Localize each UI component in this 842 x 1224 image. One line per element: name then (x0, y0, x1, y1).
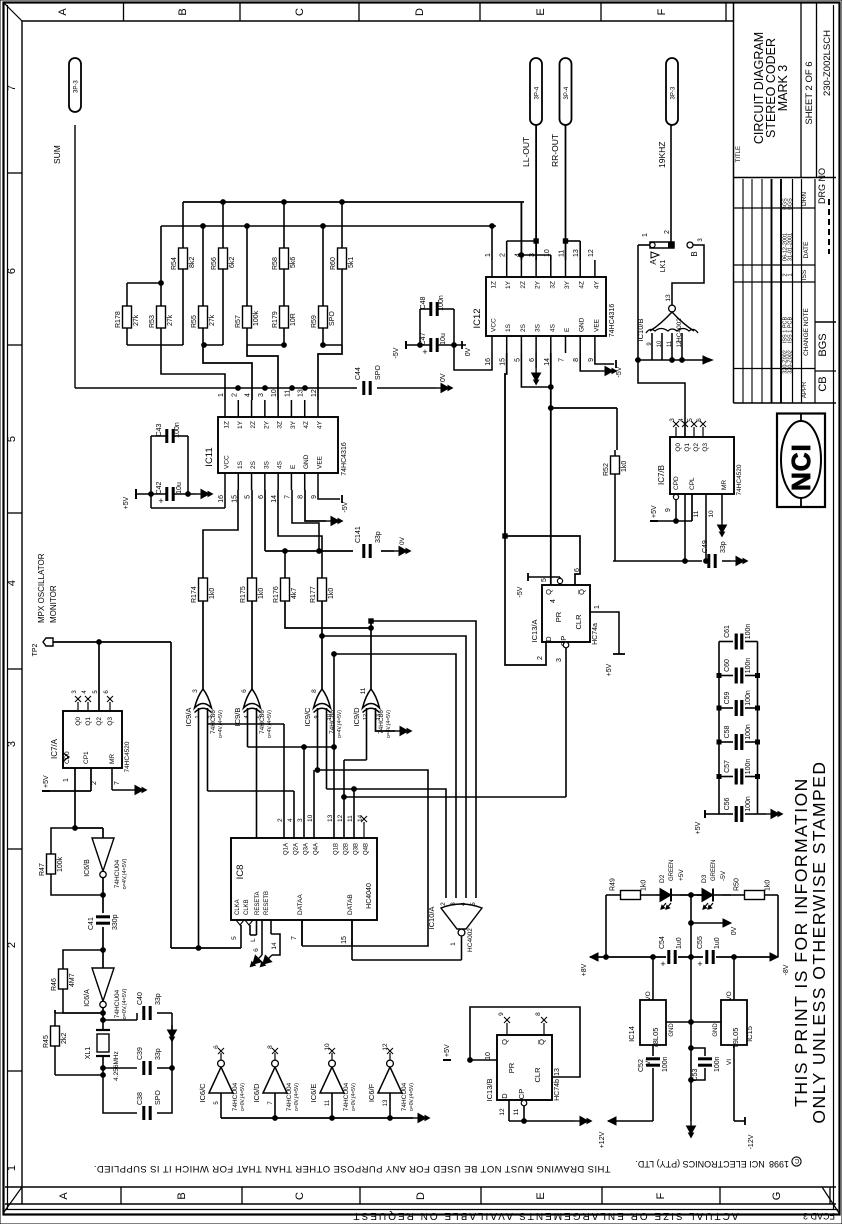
svg-text:33p: 33p (720, 541, 727, 553)
svg-text:MARK 3: MARK 3 (776, 65, 790, 112)
svg-text:27k: 27k (167, 314, 174, 326)
svg-text:C47: C47 (420, 332, 427, 345)
svg-text:74HCU04: 74HCU04 (114, 989, 121, 1018)
svg-text:R58: R58 (272, 257, 279, 270)
svg-text:Q2: Q2 (96, 717, 103, 726)
svg-text:5: 5 (231, 936, 238, 940)
svg-text:IC9/A: IC9/A (184, 708, 193, 727)
svg-text:C141: C141 (355, 526, 362, 543)
svg-text:11: 11 (667, 340, 673, 347)
svg-text:GND: GND (713, 1023, 719, 1037)
svg-text:6: 6 (213, 1045, 220, 1049)
svg-text:6: 6 (574, 568, 581, 572)
svg-text:R57: R57 (235, 315, 242, 328)
svg-text:F: F (655, 1192, 667, 1199)
svg-text:1S: 1S (237, 460, 244, 469)
svg-text:1k0: 1k0 (621, 461, 628, 472)
svg-text:Q3B: Q3B (354, 843, 360, 855)
svg-text:VEE: VEE (317, 455, 324, 469)
svg-text:Q̅: Q̅ (537, 1039, 546, 1045)
svg-text:IC9/C: IC9/C (303, 707, 312, 727)
svg-text:3: 3 (297, 818, 304, 822)
svg-text:11: 11 (693, 510, 700, 517)
svg-text:74HC4316: 74HC4316 (341, 442, 348, 476)
svg-text:+12V: +12V (599, 1131, 606, 1148)
svg-text:10: 10 (544, 249, 551, 257)
svg-text:R50: R50 (734, 878, 741, 891)
svg-text:R177: R177 (310, 586, 317, 603)
svg-text:G: G (771, 1192, 783, 1201)
svg-text:9: 9 (311, 495, 318, 499)
svg-text:C: C (294, 1192, 306, 1200)
svg-text:o=0V,(4=5V): o=0V,(4=5V) (294, 1083, 300, 1111)
svg-text:-5V: -5V (342, 501, 349, 512)
svg-text:ACTUAL SIZE OR ENLARGEMENTS AV: ACTUAL SIZE OR ENLARGEMENTS AVAILABLE ON… (352, 1210, 739, 1221)
svg-text:74HCU04: 74HCU04 (114, 859, 121, 888)
svg-text:1Z: 1Z (224, 421, 231, 429)
svg-text:3: 3 (6, 741, 18, 747)
svg-text:33p: 33p (155, 993, 162, 1005)
svg-text:230-Z002LSCH: 230-Z002LSCH (822, 30, 833, 96)
svg-text:D: D (500, 1093, 509, 1099)
svg-text:R56: R56 (211, 257, 218, 270)
svg-text:0V: 0V (399, 536, 406, 545)
svg-text:XL1: XL1 (85, 1047, 92, 1060)
svg-text:11: 11 (513, 1108, 520, 1115)
svg-text:+: + (422, 347, 427, 357)
svg-text:C38: C38 (137, 1092, 144, 1105)
svg-text:ISS: ISS (801, 269, 808, 280)
svg-text:SUM: SUM (52, 145, 62, 164)
svg-text:Q1B: Q1B (334, 843, 340, 855)
svg-text:9: 9 (498, 1012, 505, 1016)
svg-text:IC6/A: IC6/A (84, 989, 91, 1007)
svg-text:74HC86: 74HC86 (329, 710, 336, 734)
svg-text:3P-4: 3P-4 (535, 86, 541, 99)
svg-text:1: 1 (6, 1165, 18, 1171)
svg-text:2Z: 2Z (520, 281, 527, 289)
svg-text:IC10/A: IC10/A (427, 907, 436, 930)
svg-text:4Z: 4Z (303, 421, 310, 429)
svg-text:R46: R46 (51, 978, 58, 991)
svg-text:13: 13 (298, 389, 305, 397)
svg-text:R47: R47 (39, 863, 46, 876)
svg-text:C57: C57 (724, 760, 731, 773)
svg-text:11: 11 (284, 390, 291, 397)
svg-text:GREEN: GREEN (711, 860, 717, 881)
svg-text:31-01-2001: 31-01-2001 (788, 233, 794, 261)
svg-text:8k2: 8k2 (189, 257, 196, 268)
svg-text:3Z: 3Z (277, 421, 284, 429)
svg-text:1: 1 (63, 778, 70, 782)
svg-text:15: 15 (341, 936, 348, 944)
svg-text:10: 10 (324, 1043, 331, 1051)
svg-text:-5V: -5V (393, 347, 400, 358)
svg-text:11: 11 (360, 687, 367, 694)
svg-text:330p: 330p (112, 914, 119, 930)
svg-text:NCI: NCI (786, 443, 816, 491)
svg-text:IC7/B: IC7/B (657, 465, 666, 485)
svg-text:3P-3: 3P-3 (671, 86, 677, 99)
svg-text:79L05: 79L05 (731, 1028, 740, 1049)
svg-text:Q: Q (544, 589, 553, 595)
svg-text:GREEN: GREEN (669, 860, 675, 881)
svg-text:10u: 10u (440, 333, 447, 345)
svg-text:2: 2 (91, 781, 98, 785)
svg-text:-5V: -5V (616, 366, 623, 377)
svg-text:R55: R55 (191, 315, 198, 328)
svg-text:10: 10 (485, 1052, 492, 1060)
svg-text:-5V: -5V (720, 870, 727, 881)
svg-text:2: 2 (231, 393, 238, 397)
svg-text:D2: D2 (659, 874, 666, 883)
svg-text:100k: 100k (57, 856, 64, 872)
svg-text:IC13/B: IC13/B (485, 1079, 494, 1102)
svg-text:10: 10 (708, 510, 715, 518)
svg-text:6: 6 (529, 358, 536, 362)
svg-text:8: 8 (573, 358, 580, 362)
svg-text:C44: C44 (355, 367, 362, 380)
svg-text:4Y: 4Y (317, 420, 324, 429)
svg-text:12: 12 (677, 340, 683, 347)
svg-text:14: 14 (271, 942, 278, 950)
svg-text:1u0: 1u0 (714, 937, 721, 949)
svg-text:B: B (690, 251, 699, 256)
svg-text:33p: 33p (155, 1048, 162, 1060)
svg-text:100n: 100n (745, 624, 752, 640)
svg-text:Q4A: Q4A (314, 843, 320, 855)
svg-text:10: 10 (657, 340, 663, 347)
svg-text:-12V: -12V (748, 1134, 755, 1149)
svg-text:6: 6 (6, 268, 18, 274)
svg-text:100n: 100n (745, 724, 752, 740)
svg-text:MPX OSCILLATOR: MPX OSCILLATOR (37, 553, 46, 623)
svg-text:IC13/A: IC13/A (530, 620, 539, 643)
svg-text:74HC86: 74HC86 (259, 710, 266, 734)
svg-text:IC7/A: IC7/A (50, 738, 59, 759)
svg-text:RR-OUT: RR-OUT (550, 134, 560, 167)
svg-text:12: 12 (382, 1043, 389, 1051)
svg-text:9: 9 (665, 508, 672, 512)
svg-text:13: 13 (665, 294, 672, 302)
svg-text:1k0: 1k0 (641, 880, 648, 891)
svg-text:1: 1 (485, 253, 492, 257)
svg-text:4S: 4S (549, 323, 556, 332)
svg-text:GND: GND (303, 454, 310, 469)
svg-text:R52: R52 (603, 463, 610, 476)
svg-text:3: 3 (450, 902, 457, 906)
svg-text:E: E (535, 1192, 547, 1199)
svg-text:B: B (177, 8, 189, 15)
svg-text:100n: 100n (745, 690, 752, 706)
svg-text:C: C (294, 8, 306, 16)
svg-text:R49: R49 (610, 878, 617, 891)
svg-text:100n: 100n (662, 1056, 669, 1072)
svg-text:BGS: BGS (788, 198, 794, 210)
svg-text:Q3A: Q3A (304, 843, 310, 855)
svg-text:2Y: 2Y (263, 420, 270, 429)
svg-text:5: 5 (6, 436, 18, 442)
svg-text:BGS: BGS (817, 333, 829, 356)
svg-text:13: 13 (573, 249, 580, 257)
svg-text:ONLY UNLESS OTHERWISE STAMPED: ONLY UNLESS OTHERWISE STAMPED (809, 760, 829, 1123)
svg-text:2: 2 (440, 902, 447, 906)
svg-text:+5V: +5V (444, 1044, 451, 1057)
svg-text:o=0V,(4=5V): o=0V,(4=5V) (240, 1083, 246, 1111)
svg-text:VO: VO (726, 991, 733, 1000)
svg-text:100n: 100n (745, 796, 752, 812)
svg-text:74HC4520: 74HC4520 (124, 741, 131, 772)
svg-text:DATAB: DATAB (347, 894, 354, 915)
svg-text:Q3: Q3 (702, 443, 709, 452)
svg-text:F: F (656, 8, 668, 15)
svg-text:R174: R174 (191, 586, 198, 603)
svg-text:4: 4 (245, 393, 252, 397)
svg-text:C: C (794, 1157, 799, 1164)
svg-text:Q4B: Q4B (364, 843, 370, 855)
svg-text:3P-4: 3P-4 (564, 86, 570, 99)
svg-text:E: E (564, 327, 571, 332)
svg-text:CP1: CP1 (83, 751, 90, 764)
svg-text:C39: C39 (137, 1047, 144, 1060)
svg-text:SPO: SPO (155, 1090, 162, 1105)
svg-text:D: D (544, 636, 553, 642)
svg-text:4: 4 (550, 599, 557, 603)
svg-text:-8V: -8V (783, 964, 790, 975)
svg-text:+: + (697, 959, 702, 969)
svg-text:CP: CP (517, 1089, 526, 1099)
svg-text:1u0: 1u0 (676, 937, 683, 949)
svg-text:-5V: -5V (517, 586, 524, 597)
svg-text:7: 7 (291, 936, 298, 940)
svg-text:5k6: 5k6 (290, 257, 297, 268)
svg-text:0V: 0V (731, 926, 738, 935)
svg-text:4: 4 (6, 580, 18, 586)
svg-text:C42: C42 (156, 481, 163, 494)
svg-text:VO: VO (645, 991, 652, 1000)
svg-text:27k: 27k (209, 314, 216, 326)
svg-text:+8V: +8V (581, 963, 588, 976)
svg-text:DRG NO: DRG NO (817, 168, 827, 204)
svg-text:E: E (535, 8, 547, 15)
svg-text:R45: R45 (43, 1035, 50, 1048)
svg-text:C58: C58 (724, 725, 731, 738)
svg-text:13: 13 (554, 1068, 561, 1076)
svg-text:GND: GND (579, 317, 586, 332)
svg-text:4Y: 4Y (593, 280, 600, 289)
svg-text:Q1: Q1 (85, 717, 92, 726)
svg-text:8: 8 (298, 495, 305, 499)
svg-text:R60: R60 (330, 257, 337, 270)
svg-text:SPO: SPO (375, 365, 382, 380)
svg-text:Q1A: Q1A (284, 843, 290, 855)
svg-text:16: 16 (218, 495, 225, 503)
svg-text:12: 12 (499, 1108, 506, 1116)
svg-text:2Y: 2Y (535, 280, 542, 289)
svg-text:R53: R53 (149, 315, 156, 328)
svg-text:MR: MR (721, 480, 728, 490)
svg-text:DATAA: DATAA (297, 894, 304, 915)
svg-text:VCC: VCC (224, 455, 231, 469)
svg-text:NCI ELECTRONICS (PTY) LTD.: NCI ELECTRONICS (PTY) LTD. (635, 1159, 764, 1169)
svg-text:5: 5 (514, 358, 521, 362)
svg-text:11: 11 (347, 815, 354, 822)
svg-text:B: B (176, 1192, 188, 1199)
svg-text:100n: 100n (745, 759, 752, 775)
svg-text:7: 7 (6, 85, 18, 91)
svg-text:C54: C54 (659, 936, 666, 949)
svg-text:6k2: 6k2 (229, 257, 236, 268)
svg-text:Q1: Q1 (684, 443, 691, 452)
svg-text:o=4V,(4=5V): o=4V,(4=5V) (122, 858, 128, 889)
svg-text:+5V: +5V (678, 869, 685, 881)
svg-text:2S: 2S (250, 460, 257, 469)
svg-text:100n: 100n (745, 658, 752, 674)
svg-text:IC9/D: IC9/D (352, 707, 361, 727)
svg-text:3Y: 3Y (564, 280, 571, 289)
svg-text:HC74a: HC74a (592, 623, 599, 645)
svg-text:6: 6 (253, 948, 260, 952)
svg-text:74HCU04: 74HCU04 (286, 1082, 293, 1111)
svg-text:3: 3 (258, 393, 265, 397)
svg-text:CLKA: CLKA (235, 899, 241, 915)
svg-text:C48: C48 (420, 296, 427, 309)
svg-text:Q3: Q3 (107, 717, 114, 726)
svg-text:8: 8 (535, 1012, 542, 1016)
svg-text:8: 8 (311, 689, 318, 693)
svg-text:2Z: 2Z (250, 421, 257, 429)
svg-text:33p: 33p (375, 531, 382, 543)
svg-text:7: 7 (559, 358, 566, 362)
svg-text:4: 4 (460, 902, 467, 906)
svg-text:10R: 10R (290, 313, 297, 326)
svg-text:LL-OUT: LL-OUT (521, 137, 531, 167)
svg-text:1k0: 1k0 (328, 588, 335, 599)
svg-text:Q2A: Q2A (294, 843, 300, 855)
svg-text:Q0: Q0 (675, 443, 682, 452)
svg-text:C60: C60 (724, 659, 731, 672)
svg-text:o=4V,(4=5V): o=4V,(4=5V) (337, 710, 343, 738)
svg-text:100n: 100n (714, 1056, 721, 1072)
svg-text:74HC4316: 74HC4316 (609, 304, 616, 338)
svg-text:14: 14 (544, 358, 551, 366)
svg-text:IC14: IC14 (627, 1026, 636, 1042)
svg-text:320-Z002: 320-Z002 (788, 350, 794, 374)
svg-text:R178: R178 (115, 311, 122, 328)
svg-text:3S: 3S (535, 323, 542, 332)
svg-text:2: 2 (500, 253, 507, 257)
svg-text:4M7: 4M7 (69, 973, 76, 987)
svg-text:2: 2 (208, 715, 214, 718)
svg-text:3P-3: 3P-3 (74, 80, 80, 93)
svg-text:13: 13 (327, 814, 334, 822)
svg-text:2S: 2S (520, 323, 527, 332)
svg-text:C56: C56 (724, 797, 731, 810)
svg-text:VCC: VCC (491, 318, 498, 332)
svg-text:1Y: 1Y (505, 280, 512, 289)
svg-text:CPD: CPD (673, 476, 680, 490)
svg-text:8: 8 (267, 1045, 274, 1049)
svg-text:3Y: 3Y (290, 420, 297, 429)
svg-text:27k: 27k (133, 314, 140, 326)
svg-text:13: 13 (383, 1099, 389, 1106)
svg-text:74HCU04: 74HCU04 (401, 1082, 408, 1111)
svg-text:2k2: 2k2 (61, 1033, 68, 1044)
svg-text:3: 3 (192, 689, 199, 693)
svg-text:+5V: +5V (606, 663, 613, 676)
svg-text:4: 4 (287, 818, 294, 822)
svg-text:+: + (158, 496, 163, 506)
svg-text:2: 2 (664, 230, 671, 234)
svg-text:R175: R175 (240, 586, 247, 603)
svg-text:10u: 10u (176, 482, 183, 494)
svg-text:13: 13 (376, 714, 382, 720)
svg-text:2: 2 (277, 818, 284, 822)
svg-text:1: 1 (450, 942, 457, 946)
svg-text:10: 10 (271, 389, 278, 397)
svg-text:IC12: IC12 (472, 308, 483, 328)
svg-text:E: E (290, 464, 297, 469)
svg-text:D: D (415, 1192, 427, 1200)
svg-text:ISS 1 PCB: ISS 1 PCB (788, 317, 794, 344)
svg-text:IC6/B: IC6/B (84, 859, 91, 877)
svg-text:CLR: CLR (533, 1067, 542, 1083)
svg-text:L: L (250, 938, 257, 942)
svg-text:9: 9 (588, 358, 595, 362)
svg-text:1k0: 1k0 (765, 880, 772, 891)
svg-text:C43: C43 (156, 423, 163, 436)
svg-text:+5V: +5V (123, 496, 130, 509)
svg-text:10: 10 (307, 814, 314, 822)
svg-text:SHEET 2 OF 6: SHEET 2 OF 6 (804, 61, 815, 124)
svg-text:1: 1 (594, 605, 601, 609)
svg-text:CLR: CLR (574, 614, 583, 630)
svg-text:3S: 3S (263, 460, 270, 469)
svg-text:C59: C59 (724, 691, 731, 704)
svg-text:PR: PR (554, 611, 563, 622)
svg-text:0V: 0V (440, 373, 447, 382)
svg-text:o=0V,(4=5V): o=0V,(4=5V) (351, 1083, 357, 1111)
svg-text:HC4040: HC4040 (366, 883, 373, 909)
svg-text:FCAD 3: FCAD 3 (803, 1211, 835, 1221)
svg-text:1998: 1998 (769, 1159, 789, 1169)
svg-text:5: 5 (245, 495, 252, 499)
svg-text:12: 12 (311, 389, 318, 397)
svg-text:o=0V,(4=5V): o=0V,(4=5V) (122, 988, 128, 1019)
svg-text:10: 10 (327, 714, 333, 720)
svg-text:THIS PRINT IS FOR INFORMATION: THIS PRINT IS FOR INFORMATION (791, 777, 811, 1107)
svg-text:1S: 1S (505, 323, 512, 332)
svg-text:CB: CB (817, 376, 829, 391)
svg-text:C52: C52 (638, 1059, 645, 1072)
svg-text:R54: R54 (171, 257, 178, 270)
svg-text:11: 11 (559, 250, 566, 257)
svg-text:6: 6 (241, 689, 248, 693)
svg-text:12: 12 (588, 249, 595, 257)
svg-text:CPL: CPL (689, 477, 696, 490)
svg-text:16: 16 (485, 358, 492, 366)
svg-text:1: 1 (642, 233, 649, 237)
svg-text:VI: VI (726, 1059, 733, 1065)
svg-text:C61: C61 (724, 625, 731, 638)
svg-text:APPR: APPR (802, 381, 808, 398)
svg-text:IC15: IC15 (745, 1026, 754, 1042)
svg-text:C40: C40 (137, 992, 144, 1005)
svg-text:SPO: SPO (329, 311, 336, 326)
svg-text:DATE: DATE (803, 241, 810, 259)
svg-text:+: + (660, 959, 665, 969)
svg-text:Q2B: Q2B (344, 843, 350, 855)
